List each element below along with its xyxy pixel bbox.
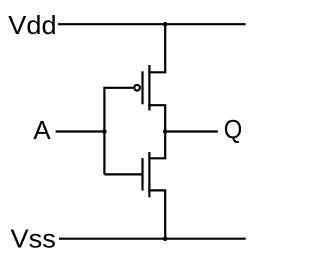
- junction dot at output node: [163, 129, 168, 134]
- pmos M1 channel bar: [148, 65, 150, 111]
- wire: gate bus to pmos bubble: [104, 87, 133, 89]
- wire: nmos source lead down to Vss rail: [148, 190, 165, 238]
- wire: output node to Q: [165, 130, 218, 132]
- nmos M2 gate bar: [141, 158, 143, 190]
- svg-text:Vdd: Vdd: [8, 10, 56, 40]
- wire: gate bus to nmos gate: [104, 173, 142, 175]
- nmos M2 channel bar: [148, 152, 150, 197]
- pmos M1 gate bubble: [134, 85, 140, 91]
- wire: Vdd rail down to PMOS source lead: [148, 23, 165, 72]
- junction dot on Vss rail: [163, 236, 168, 241]
- svg-text:A: A: [33, 115, 51, 145]
- wire: nmos drain lead up to output node: [148, 132, 165, 159]
- wire: Vdd rail: [58, 23, 246, 25]
- wire: pmos drain lead down to output node: [148, 105, 165, 131]
- wire: vertical gate bus: [103, 87, 105, 175]
- junction dot at input node A: [102, 129, 107, 134]
- wire: Vss rail: [59, 238, 246, 240]
- wire: input A to gate bus: [56, 130, 105, 132]
- svg-text:Q: Q: [224, 114, 243, 144]
- pmos M1 gate bar: [141, 71, 143, 104]
- junction dot on Vdd rail: [163, 22, 168, 27]
- svg-text:Vss: Vss: [11, 224, 56, 254]
